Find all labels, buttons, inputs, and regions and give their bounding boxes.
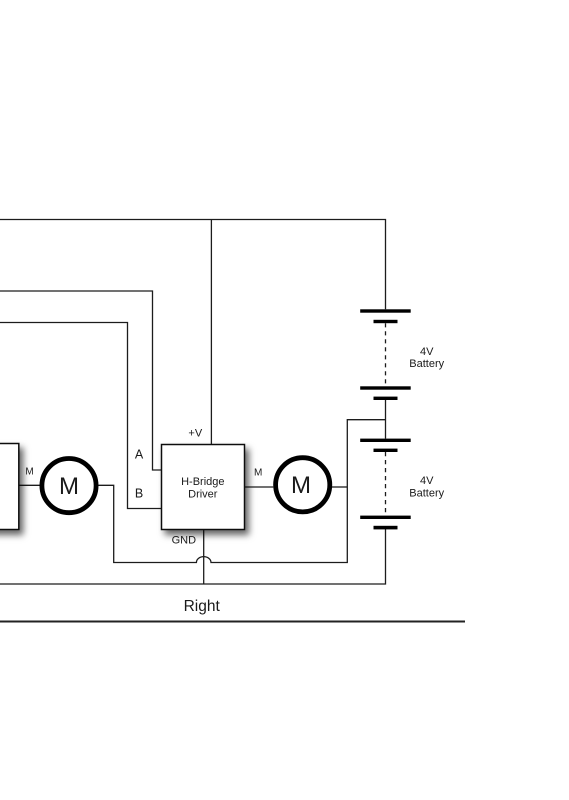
svg-text:B: B: [135, 487, 143, 501]
svg-text:H-Bridge: H-Bridge: [181, 476, 224, 488]
svg-text:M: M: [291, 472, 311, 499]
svg-text:+V: +V: [188, 428, 202, 440]
svg-text:M: M: [59, 473, 79, 500]
svg-text:M: M: [254, 468, 262, 479]
svg-text:Battery: Battery: [409, 358, 444, 370]
svg-text:Battery: Battery: [409, 487, 444, 499]
svg-text:A: A: [135, 448, 144, 462]
svg-text:Driver: Driver: [188, 489, 218, 501]
svg-text:GND: GND: [172, 535, 197, 547]
svg-text:M: M: [25, 467, 33, 478]
svg-text:Right: Right: [184, 598, 221, 615]
svg-text:4V: 4V: [420, 346, 434, 358]
svg-text:4V: 4V: [420, 475, 434, 487]
